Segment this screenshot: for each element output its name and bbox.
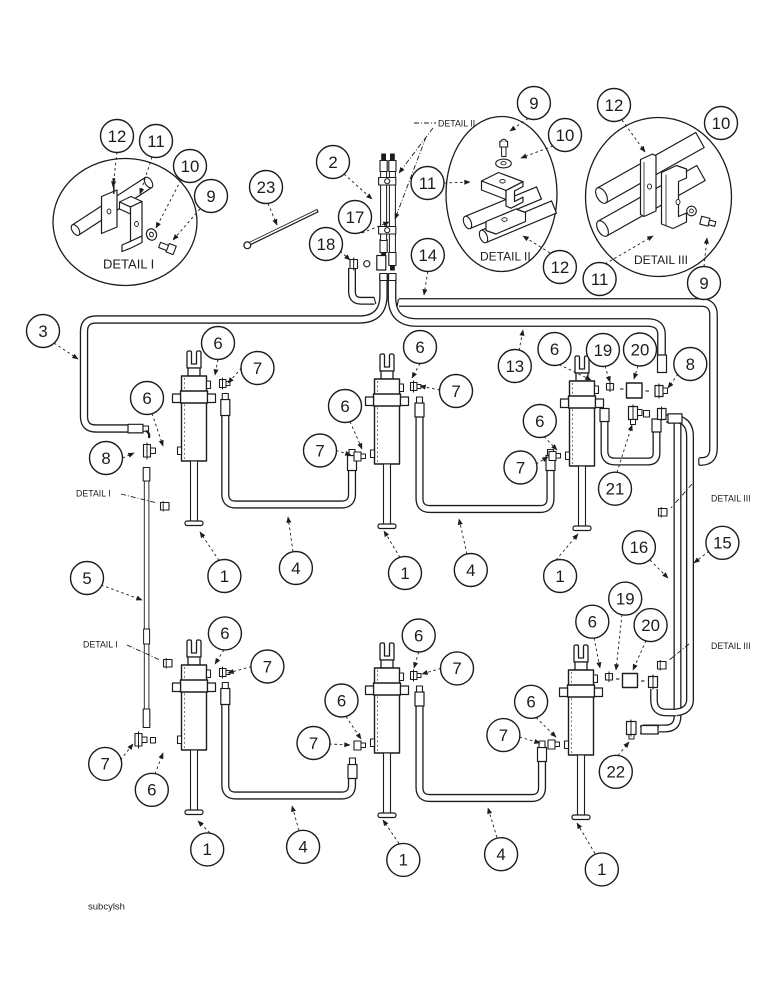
leader 1 r2r: [577, 823, 595, 854]
svg-text:10: 10: [712, 114, 731, 133]
svg-text:1: 1: [399, 851, 408, 870]
fitting 7 row1-left top port: [220, 378, 231, 390]
leader 19 r2: [616, 615, 622, 671]
fitting pipe3 end coupler: [128, 424, 149, 438]
cylinder 1 row2-right: [560, 645, 603, 820]
callout 1 r1m: [389, 557, 422, 590]
elbow 8 row1-right: [655, 384, 668, 399]
callout 11 detail III: [583, 263, 616, 296]
fitting hose4 row1 mid right-end: [546, 450, 555, 471]
fitting 19 row1-right top: [607, 382, 614, 393]
callout 10 detail III: [705, 107, 738, 140]
leader 6 r2m lower: [346, 717, 361, 740]
callout 1 r2l: [191, 833, 224, 866]
fitting hose4 row1 mid top: [415, 397, 424, 417]
fitting 7 row1-right lower port: [549, 452, 561, 461]
svg-text:DETAIL III: DETAIL III: [634, 253, 688, 267]
fitting 18 elbow and ring at manifold: [350, 256, 386, 271]
svg-text:13: 13: [505, 357, 524, 376]
callout 18: [310, 228, 343, 261]
leader 14: [424, 272, 428, 296]
callout 6 r2l lower: [135, 773, 168, 806]
leader 6 r1l lower: [152, 414, 163, 447]
svg-text:14: 14: [418, 246, 437, 265]
svg-text:6: 6: [550, 340, 559, 359]
svg-text:12: 12: [551, 258, 570, 277]
svg-text:DETAIL III: DETAIL III: [711, 494, 751, 504]
leader 4 r1r: [459, 519, 467, 554]
leader 12 detail III: [622, 120, 645, 152]
fitting hose4 row2 mid right-end: [538, 741, 547, 762]
svg-text:DETAIL II: DETAIL II: [480, 250, 531, 264]
clamp band upper on twin hoses: [379, 178, 396, 186]
svg-text:7: 7: [101, 755, 110, 774]
cylinder 1 row1-middle: [366, 354, 409, 529]
callout 9 detail II: [517, 87, 550, 120]
callout 20 r2: [634, 609, 667, 642]
fitting 7 row2-mid lower port: [354, 741, 366, 750]
leader 10 detail II: [521, 146, 553, 158]
callout 7 r1m top: [440, 375, 473, 408]
svg-text:6: 6: [414, 626, 423, 645]
detail III bubble: [586, 118, 732, 277]
wire pipe 16 (right vertical A): [643, 419, 678, 729]
leader 22: [618, 742, 629, 756]
leader 7 r1r lower: [536, 457, 548, 464]
callout 9 detail I: [195, 180, 228, 213]
svg-text:DETAIL III: DETAIL III: [711, 641, 751, 651]
callout 12 detail II: [543, 251, 576, 284]
fitting hose4 row1 left right-end: [348, 450, 357, 471]
callout 19 r2: [609, 582, 642, 615]
leader 11 detail III: [605, 236, 653, 264]
callout 4 r1r: [454, 554, 487, 587]
leader 6 r1l top: [215, 360, 218, 376]
leader 23: [268, 204, 277, 226]
detail II bubble: [446, 117, 557, 272]
cylinder 1 row2-left: [173, 640, 216, 815]
svg-text:1: 1: [400, 564, 409, 583]
svg-text:17: 17: [346, 208, 365, 227]
leader 21: [617, 425, 632, 473]
callout 6 r1l lower: [131, 382, 164, 415]
callout 14: [411, 239, 444, 272]
svg-text:6: 6: [213, 334, 222, 353]
leader 9 detail II: [510, 119, 528, 132]
leader 7 r1m lower: [336, 451, 351, 456]
callout 7 r2l top: [251, 650, 284, 683]
svg-text:21: 21: [606, 480, 625, 499]
leader 15: [694, 551, 709, 563]
block 20 row1-right: [620, 383, 649, 398]
label DETAIL II top: [395, 119, 475, 220]
leader 19 r1: [605, 366, 610, 382]
svg-text:15: 15: [713, 534, 732, 553]
elbow row2-right to S-hose: [649, 675, 658, 690]
callout 6 r1m top: [404, 331, 437, 364]
leader 6 r1m top: [412, 364, 420, 379]
callout 7 r1m lower: [304, 434, 337, 467]
leader 4 r2r: [488, 808, 497, 838]
leader 3: [54, 343, 78, 359]
svg-text:16: 16: [630, 538, 649, 557]
svg-text:8: 8: [101, 449, 110, 468]
svg-text:DETAIL II: DETAIL II: [438, 119, 475, 129]
callout 7 r1l top: [241, 352, 274, 385]
callout 6 r1r lower: [523, 405, 556, 438]
label DETAIL I lower-left: [83, 640, 172, 669]
wire inner right run to elbow 8: [392, 274, 662, 372]
callout 21: [599, 472, 632, 505]
leader 13: [519, 330, 523, 351]
callout 7 r2l lower: [89, 747, 122, 780]
leader 17: [362, 222, 389, 233]
fitting hose4 row2 left right-end: [348, 758, 357, 779]
leader 11 detail II: [444, 182, 470, 183]
callout 11 detail II: [411, 167, 444, 200]
fitting small U row1 ends: [600, 409, 661, 433]
callout 6 r1m lower: [329, 390, 362, 423]
svg-text:2: 2: [328, 153, 337, 172]
wire hose 4 row2 right: [420, 705, 543, 798]
callout 8 r1r: [674, 348, 707, 381]
leader 20 r1: [634, 366, 638, 379]
callout 6 r2m lower: [325, 684, 358, 717]
callout 17: [339, 201, 372, 234]
svg-text:11: 11: [147, 132, 164, 151]
leader 7 r2l top: [228, 667, 252, 674]
fitting 7 T row2-left lower port: [135, 732, 156, 749]
svg-text:7: 7: [499, 726, 508, 745]
fitting 7 row2-mid top port: [411, 670, 422, 682]
svg-text:1: 1: [555, 567, 564, 586]
leader 4 r2l: [292, 806, 299, 831]
leader 6 r1r top: [559, 365, 591, 381]
svg-text:DETAIL I: DETAIL I: [76, 489, 111, 499]
elbow 22 row2: [627, 720, 637, 740]
callout 22: [599, 755, 632, 788]
leader 7 r1l top: [228, 368, 242, 383]
svg-text:22: 22: [606, 763, 625, 782]
callout 12 detail III: [598, 89, 631, 122]
svg-text:7: 7: [263, 657, 272, 676]
leader 8 r1r: [668, 374, 678, 388]
svg-text:DETAIL I: DETAIL I: [83, 640, 118, 650]
svg-text:4: 4: [298, 838, 307, 857]
svg-text:6: 6: [535, 412, 544, 431]
wire hose 4 row2 left: [225, 705, 352, 796]
leader 7 r2r lower: [520, 737, 541, 743]
leader 4 r1l: [288, 517, 293, 552]
wire hose 4 row1 right: [420, 416, 551, 509]
svg-text:6: 6: [142, 389, 151, 408]
svg-text:8: 8: [686, 355, 695, 374]
svg-text:9: 9: [529, 94, 538, 113]
rod 23: [244, 211, 318, 249]
fitting 8 T row1-left lower port: [144, 443, 156, 460]
fitting 7 row2-left top port: [220, 667, 231, 679]
callout 6 r2r top: [576, 605, 609, 638]
wire row2 S-hose: [654, 689, 676, 713]
fitting hose4 row1 left top: [221, 394, 230, 416]
callout 1 r1r: [544, 560, 577, 593]
leader 7 r2m top: [422, 668, 441, 674]
leader 18: [340, 251, 350, 260]
label DETAIL III upper-right: [659, 484, 751, 518]
hose assembly 2 twin vertical hoses: [380, 154, 396, 271]
callout 7 r2r lower: [487, 719, 520, 752]
svg-text:5: 5: [82, 569, 91, 588]
wire pipe 15 (right vertical B): [666, 419, 690, 713]
wire tube 14 outer right pipe: [399, 303, 714, 462]
svg-text:subcylsh: subcylsh: [88, 902, 125, 913]
elbow fitting row1-right to pipes: [658, 407, 667, 421]
fitting 19 row2-right top: [606, 672, 613, 683]
callout 4 r1l: [279, 552, 312, 585]
callout 6 r1r top: [538, 333, 571, 366]
fitting bits row1-right second row: [644, 411, 650, 418]
leader 16: [650, 560, 668, 578]
leader 6 r1r lower: [544, 437, 557, 451]
callout 1 r2r: [585, 853, 618, 886]
svg-text:6: 6: [220, 624, 229, 643]
leader 1 r2m: [383, 820, 399, 844]
leader 1 r2l: [198, 821, 210, 833]
wire pipe 3 (left supply run): [84, 274, 384, 429]
fitting hose4 row2 mid top: [415, 686, 424, 706]
callout 7 r2m lower: [297, 727, 330, 760]
callout 1 r2m: [387, 843, 420, 876]
svg-text:3: 3: [38, 322, 47, 341]
svg-text:7: 7: [309, 734, 318, 753]
leader 9 detail I: [173, 209, 200, 240]
leader 6 r2r top: [594, 638, 600, 668]
leader 5: [101, 585, 142, 600]
leader 20 r2: [633, 641, 646, 671]
svg-text:6: 6: [337, 691, 346, 710]
leader 6 r2r lower: [536, 718, 556, 738]
fitting 7 row1-mid lower port: [354, 452, 366, 461]
svg-text:1: 1: [597, 860, 606, 879]
svg-text:7: 7: [451, 382, 460, 401]
callout 3: [27, 315, 60, 348]
coupler pipe down to elbow8: [658, 355, 667, 373]
detail I bubble: [53, 159, 197, 286]
callout 10 detail II: [549, 119, 582, 152]
leader 11 detail I: [140, 157, 152, 194]
label DETAIL I upper-left: [76, 489, 169, 512]
leader 6 r2l top: [215, 650, 224, 664]
svg-text:6: 6: [340, 397, 349, 416]
callout 7 r2m top: [441, 652, 474, 685]
svg-text:12: 12: [108, 127, 127, 146]
svg-text:12: 12: [605, 96, 624, 115]
svg-text:7: 7: [253, 359, 262, 378]
fitting hose4 row2 left top: [221, 683, 230, 705]
svg-text:10: 10: [556, 126, 575, 145]
leader 8 r1l: [123, 453, 135, 458]
callout 20 r1: [624, 333, 657, 366]
callout 11 detail I: [140, 125, 173, 158]
svg-text:7: 7: [452, 659, 461, 678]
cylinder 1 row1-right: [561, 356, 604, 531]
svg-text:4: 4: [291, 559, 300, 578]
fitting 7 row1-mid top port: [411, 381, 422, 393]
callout 4 r2l: [287, 830, 320, 863]
cylinder 1 row1-left: [173, 351, 216, 526]
svg-text:1: 1: [203, 840, 212, 859]
callout 2: [317, 146, 350, 179]
callout 6 r2r lower: [515, 685, 548, 718]
svg-text:7: 7: [516, 458, 525, 477]
clamp band lower on twin hoses: [379, 227, 396, 235]
wire hose row1 right small U: [605, 420, 657, 462]
callout 19 r1: [586, 334, 619, 367]
block 20 row2-right: [616, 674, 645, 688]
svg-text:20: 20: [631, 340, 650, 359]
svg-text:10: 10: [181, 157, 200, 176]
svg-text:9: 9: [206, 187, 215, 206]
svg-text:6: 6: [147, 781, 156, 800]
callout 10 detail I: [174, 150, 207, 183]
T fitting 21 row1-right second row: [629, 405, 643, 425]
svg-text:4: 4: [466, 561, 475, 580]
svg-text:20: 20: [641, 616, 660, 635]
svg-text:6: 6: [526, 693, 535, 712]
leader 6 r1m lower: [350, 422, 362, 450]
callout 6 r1l top: [202, 327, 235, 360]
callout 6 r2m top: [402, 619, 435, 652]
label DETAIL III lower-right: [658, 641, 751, 671]
svg-text:4: 4: [496, 845, 505, 864]
fitting 7 row2-right lower port: [548, 740, 560, 749]
svg-text:11: 11: [419, 174, 436, 193]
leader 10 detail I: [156, 180, 181, 228]
callout 4 r2r: [485, 838, 518, 871]
callout 16: [622, 531, 655, 564]
leader 1 r1m: [384, 531, 400, 558]
callout 1 r1l: [208, 560, 241, 593]
callout 5: [71, 562, 104, 595]
wire hose 4 row1 left: [225, 416, 352, 505]
svg-text:6: 6: [588, 613, 597, 632]
leader 12 detail I: [113, 152, 117, 187]
cylinder 1 row2-middle: [366, 643, 409, 818]
coupler sleeve on pipe A/B stub: [668, 414, 682, 423]
callout 15: [706, 526, 739, 559]
leader 6 r2l lower: [155, 753, 163, 774]
callout 8 r1l: [90, 442, 123, 475]
leader 12 detail II: [523, 236, 550, 253]
svg-text:1: 1: [220, 567, 229, 586]
callout 9 detail III: [688, 267, 721, 300]
wire row2 hose at elbow 22: [640, 726, 659, 734]
leader 7 r1m top: [420, 386, 440, 390]
leader 6 r2m top: [414, 652, 419, 668]
svg-text:11: 11: [591, 270, 608, 289]
callout 7 r1r lower: [504, 451, 537, 484]
svg-text:DETAIL I: DETAIL I: [103, 257, 154, 272]
svg-text:19: 19: [594, 341, 613, 360]
leader 7 r2m lower: [329, 744, 350, 745]
svg-text:9: 9: [699, 274, 708, 293]
callout 12 detail I: [101, 120, 134, 153]
svg-text:7: 7: [315, 441, 324, 460]
coupler row2 pipeA end: [641, 726, 658, 735]
leader 7 r2l lower: [121, 744, 134, 760]
callout 13: [498, 350, 531, 383]
callout 23: [250, 171, 283, 204]
leader 1 r1r: [556, 534, 578, 560]
rod 5 long link rod: [143, 468, 150, 728]
svg-text:6: 6: [415, 338, 424, 357]
leader 2: [344, 174, 372, 199]
svg-text:19: 19: [616, 589, 635, 608]
stub couplers below manifold tees: [380, 274, 396, 281]
leader 9 detail III: [704, 238, 707, 267]
wire J-tube at manifold left: [352, 268, 375, 301]
callout 6 r2l top: [208, 617, 241, 650]
leader 1 r1l: [200, 532, 219, 561]
svg-text:18: 18: [317, 235, 336, 254]
svg-text:23: 23: [257, 178, 276, 197]
